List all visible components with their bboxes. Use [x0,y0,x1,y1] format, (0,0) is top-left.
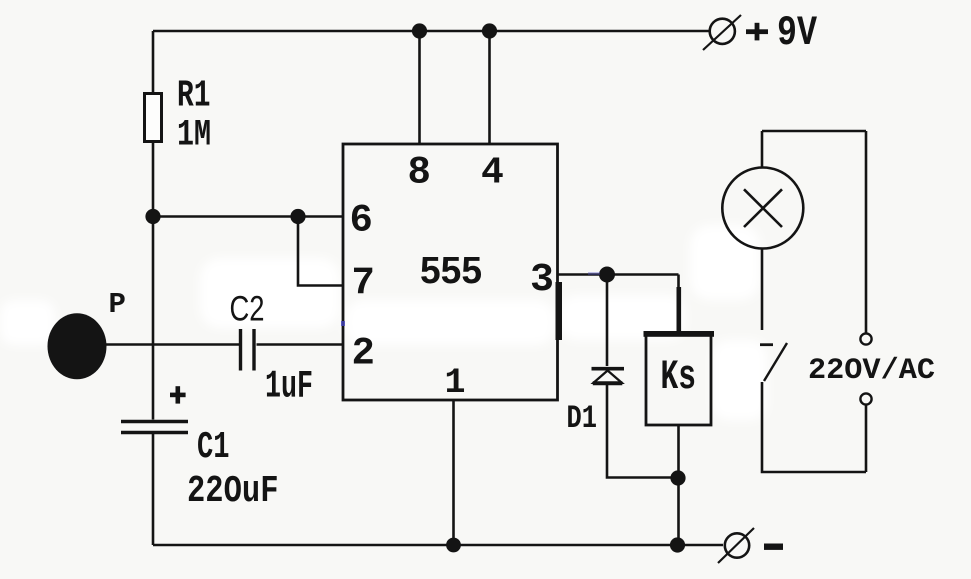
svg-text:1uF: 1uF [265,365,313,409]
svg-text:C2: C2 [230,290,265,329]
svg-text:2: 2 [352,332,375,376]
svg-text:22OV/AC: 22OV/AC [808,354,935,388]
svg-text:8: 8 [408,151,431,195]
svg-text:C1: C1 [197,426,230,469]
svg-text:Ks: Ks [661,353,697,401]
svg-text:3: 3 [530,258,554,303]
svg-text:9V: 9V [777,9,818,57]
svg-text:555: 555 [420,250,482,292]
svg-text:22OuF: 22OuF [187,470,279,513]
svg-text:P: P [109,288,126,321]
svg-text:7: 7 [352,262,375,306]
svg-text:D1: D1 [567,400,598,437]
svg-text:1M: 1M [177,115,211,157]
svg-text:4: 4 [481,152,504,195]
svg-text:1: 1 [445,363,466,403]
svg-text:6: 6 [350,199,373,243]
svg-text:R1: R1 [177,75,211,118]
